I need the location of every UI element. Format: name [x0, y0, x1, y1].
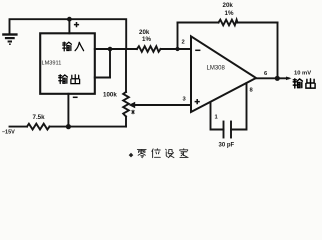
定 — [180, 149, 188, 158]
potentiometer R3 100k body — [125, 49, 127, 92]
wire input line to op-amp — [95, 48, 137, 50]
wire output — [256, 77, 289, 79]
op-amp U1 LM308 — [191, 36, 256, 112]
设 — [166, 149, 174, 157]
svg-text:100k: 100k — [103, 92, 117, 99]
wire top ground rail — [10, 19, 127, 49]
wire bottom rail — [10, 126, 28, 128]
wire feedback vertical — [177, 23, 179, 50]
svg-text:10 mV: 10 mV — [294, 71, 311, 77]
svg-text:LM308: LM308 — [207, 66, 226, 72]
svg-text:LM3911: LM3911 — [42, 61, 62, 67]
svg-text:7.5k: 7.5k — [33, 114, 46, 121]
wire resistor to inverting input — [161, 48, 191, 50]
svg-text:–15V: –15V — [2, 130, 15, 136]
wire feedback top — [178, 22, 219, 24]
capacitor C1 30pF pin1 lead — [211, 102, 224, 129]
resistor R1 20k 1% (input) — [137, 46, 161, 52]
零 — [137, 149, 146, 157]
bullet — [129, 153, 134, 158]
asterisk marker at wiper — [132, 110, 135, 114]
labels: polarity — [73, 22, 201, 104]
caption *零位设定 (zero adjust) — [129, 149, 188, 158]
labels: values — [2, 2, 311, 149]
svg-text:2: 2 — [182, 40, 185, 46]
label + (supply) — [74, 22, 79, 27]
output arrowhead — [286, 77, 292, 81]
resistor R4 20k 1% (feedback) — [219, 20, 238, 26]
capacitor C1 pin8 lead — [231, 83, 247, 129]
sensor block LM3911 — [40, 33, 95, 94]
capacitor C1 plates — [223, 122, 225, 138]
label + non-inverting — [195, 99, 200, 104]
label 输出 (block output) — [59, 75, 80, 84]
label 输入 (input) — [63, 42, 84, 51]
位 — [152, 149, 160, 158]
node junction top (+ stub) — [68, 19, 70, 33]
svg-text:30 pF: 30 pF — [219, 143, 235, 149]
ground — [2, 35, 17, 45]
svg-text:20k: 20k — [139, 29, 150, 36]
wire feedback loop output link — [95, 77, 110, 79]
svg-text:1%: 1% — [142, 36, 151, 43]
label - (supply) — [73, 96, 78, 98]
label 10mV 输出 (output, right) — [293, 79, 315, 88]
wiper arrow — [129, 102, 136, 109]
svg-text:20k: 20k — [223, 2, 234, 9]
svg-text:1%: 1% — [225, 10, 234, 17]
label - inverting — [195, 49, 200, 51]
wire negative supply stub — [67, 94, 69, 127]
resistor R2 7.5k — [27, 124, 50, 130]
wire wiper to non-inverting input — [134, 104, 192, 106]
